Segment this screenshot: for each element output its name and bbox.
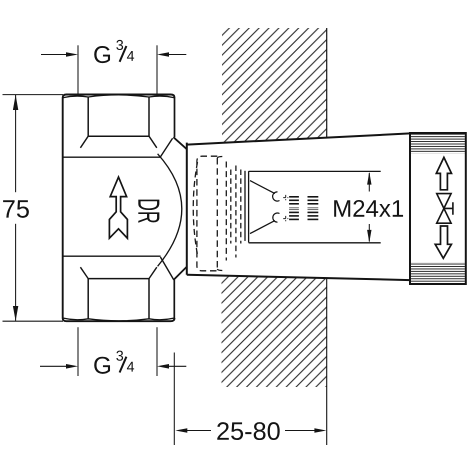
top hex face bottom line (88, 135, 149, 137)
top hex right chamfer diagonal (149, 136, 157, 148)
spindle funnel upper slant (250, 181, 275, 194)
wall upper hatched section (222, 28, 327, 143)
cone silhouette diagonal lower (160, 257, 173, 280)
cartridge dashed step line 3 (235, 166, 237, 258)
bottom hex face left vertical (87, 279, 89, 319)
spindle end hook upper (273, 192, 280, 201)
dimension M24x1: arrows (367, 172, 371, 185)
dimension M24x1: text (334, 200, 403, 217)
dimension 25-80: text (217, 422, 279, 440)
sleeve bottom edge (187, 275, 410, 280)
hex to sleeve transition diagonal upper (173, 137, 186, 149)
wall lower hatched section (222, 276, 327, 387)
bottom hex right chamfer diagonal (149, 267, 157, 278)
hex to sleeve transition diagonal lower (174, 267, 187, 280)
DR marking (rotated) (138, 200, 159, 223)
top hex face left vertical (87, 97, 89, 136)
valve body left edge (62, 98, 64, 319)
knob valve symbol lower triangle (437, 208, 451, 223)
spindle housing end vertical 2 (248, 171, 250, 242)
dimension G 3/4 top: dimension line and arrows (41, 54, 67, 56)
bell silhouette arc (158, 154, 182, 266)
handle knob body (410, 133, 466, 284)
spindle funnel lower slant (250, 221, 275, 234)
knob open arrow down (435, 226, 451, 258)
dimension G 3/4 bottom: text (94, 357, 110, 374)
spindle centerline tick upper (283, 195, 288, 200)
dimension 75: extension lines (3, 94, 64, 96)
sleeve top edge (187, 133, 410, 144)
bottom hex face top line (88, 278, 149, 280)
knob valve symbol stem and handle (444, 202, 453, 215)
bottom hex face right vertical (148, 279, 150, 319)
top hex face right vertical (148, 97, 150, 136)
dimension 75: dimension line and arrows (15, 95, 17, 192)
spline block left (289, 197, 299, 220)
body shoulder line above bottom hex (63, 255, 161, 257)
cartridge dashed step line 1 (225, 162, 227, 261)
spindle housing top line (M24x1 thread) (249, 170, 381, 172)
dimension G 3/4 bottom: extension lines (77, 327, 79, 376)
top hex face chamfer arcs (63, 95, 175, 98)
spline block right (308, 197, 319, 220)
spindle housing end vertical 1 (244, 171, 246, 241)
flow direction arrow (109, 177, 127, 238)
knob knurling bottom band (411, 262, 465, 283)
knob valve symbol upper triangle (437, 194, 451, 209)
dimension 25-80: dimension line and arrows (175, 428, 187, 433)
cartridge cap dashed inner vertical (217, 157, 222, 271)
dimension 75: text (3, 200, 29, 218)
wall face edge line lower (extends down as extension line for 25-80) (326, 278, 328, 445)
sleeve left edge (186, 143, 188, 275)
knob knurling top band (411, 134, 465, 153)
cone silhouette diagonal upper (160, 138, 172, 157)
cartridge cap dashed outline (197, 156, 217, 271)
dimension G 3/4 top: text (94, 46, 110, 63)
spindle housing bottom line (249, 242, 381, 244)
bottom hex bottom edge (63, 318, 175, 321)
knob open arrow up (436, 157, 451, 189)
cartridge dashed step line 2 (230, 170, 232, 244)
cartridge dashed step line 4 (240, 170, 242, 244)
bottom hex right edge (173, 280, 175, 318)
top hex nut top edge (63, 95, 175, 98)
top hex nut right edge (174, 98, 176, 138)
body shoulder line below top hex (63, 156, 161, 158)
dimension G 3/4 top: extension lines (77, 45, 79, 94)
dimension G 3/4 bottom: dimension line and arrows (40, 365, 67, 367)
spindle centerline tick lower (283, 216, 288, 221)
top hex left chamfer diagonal (80, 136, 88, 148)
bottom hex face chamfer arcs (63, 318, 175, 321)
spindle end hook lower (273, 213, 280, 222)
hidden bell dashed arc left (193, 162, 197, 255)
dimension 25-80: left extension line (173, 353, 175, 446)
wall face edge line upper (326, 28, 328, 138)
bottom hex left chamfer diagonal (80, 267, 88, 278)
